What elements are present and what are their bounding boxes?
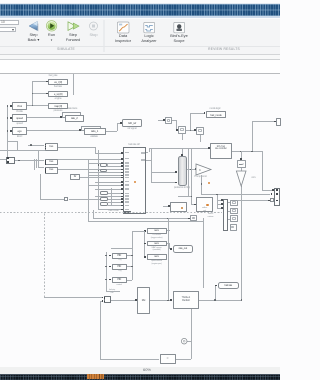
svg-text:K: K (199, 168, 201, 172)
